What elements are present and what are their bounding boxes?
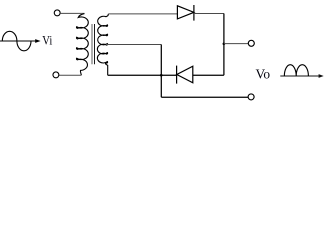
transformer primary winding <box>76 14 88 76</box>
transformer secondary winding <box>97 14 108 75</box>
diode D1 <box>177 5 194 21</box>
output minus terminal <box>248 94 254 100</box>
wire right vertical <box>223 14 225 76</box>
wire secondary top rail <box>108 13 177 15</box>
primary top terminal <box>54 10 60 16</box>
AC source arrow wire <box>0 39 41 43</box>
junction node at output tap <box>223 43 226 46</box>
svg-text:Vo: Vo <box>256 66 271 81</box>
junction node on D2 rail <box>160 74 163 77</box>
wire primary top <box>60 12 84 14</box>
output plus terminal <box>248 40 254 46</box>
primary bottom terminal <box>53 72 59 78</box>
AC source sine symbol <box>2 31 31 50</box>
svg-text:Vi: Vi <box>42 33 53 47</box>
diode D2 <box>177 66 193 84</box>
wire center tap rail <box>106 44 161 46</box>
transformer core <box>92 24 95 64</box>
wire secondary bottom to D2 <box>108 74 177 76</box>
rectified output waveform symbol <box>280 65 323 78</box>
wire D2 anode to corner <box>193 74 224 76</box>
wire bottom rail <box>161 96 248 98</box>
wire output plus stub <box>224 43 248 45</box>
wire D1 cathode to corner <box>194 13 224 15</box>
wire center tap vertical <box>160 45 162 98</box>
wire primary bottom <box>59 74 81 76</box>
